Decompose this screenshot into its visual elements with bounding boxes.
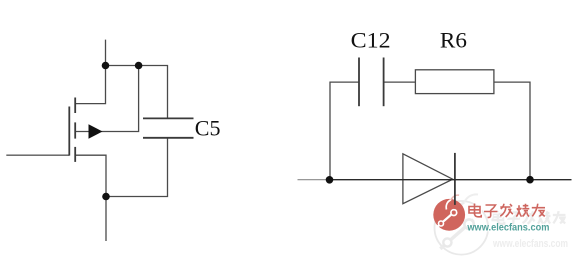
svg-text:C5: C5 <box>195 116 221 141</box>
svg-text:C12: C12 <box>351 28 391 53</box>
svg-text:www.elecfans.com: www.elecfans.com <box>492 238 568 250</box>
svg-text:R6: R6 <box>440 28 467 53</box>
svg-text:www.elecfans.com: www.elecfans.com <box>467 222 550 234</box>
